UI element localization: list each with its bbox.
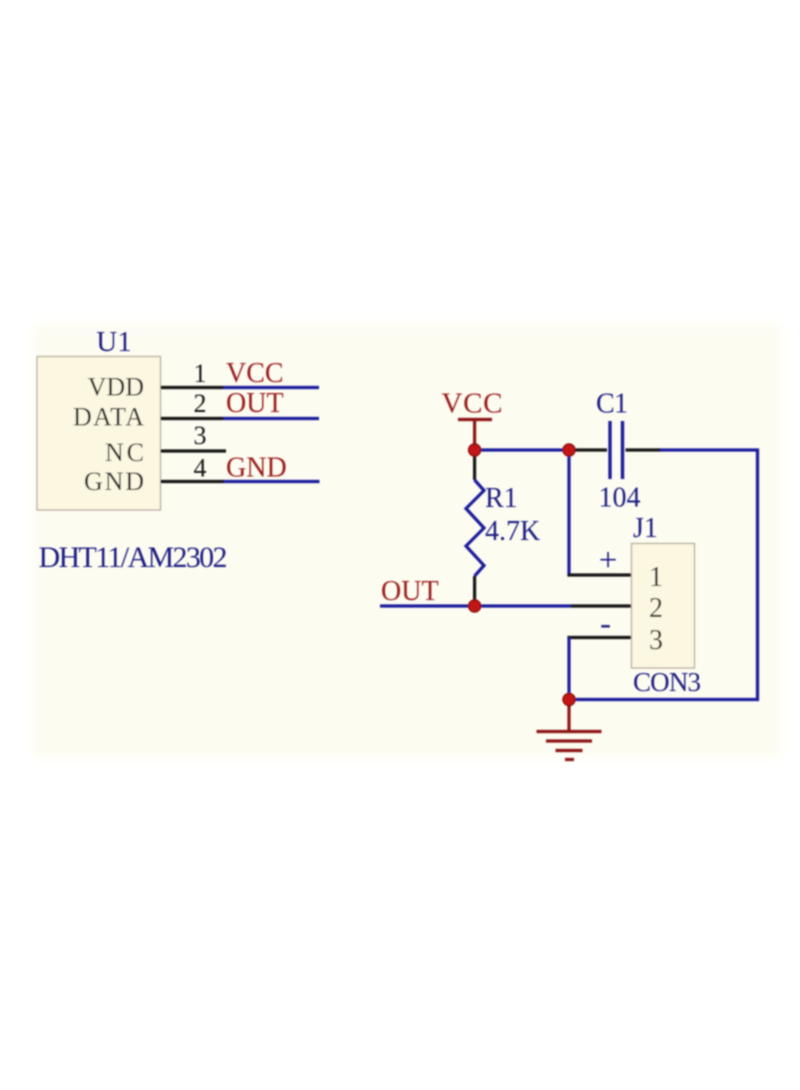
svg-text:VCC: VCC (442, 388, 503, 420)
svg-text:C1: C1 (596, 389, 628, 420)
wire VCC node to C1 node (475, 448, 569, 451)
svg-text:J1: J1 (633, 513, 658, 544)
J1 pin 1 stub (567, 573, 631, 576)
svg-text:U1: U1 (96, 326, 131, 358)
capacitor C1 left lead (574, 448, 607, 451)
ground symbol bar 3 (556, 749, 583, 752)
svg-text:3: 3 (194, 421, 207, 450)
svg-text:GND: GND (226, 453, 287, 484)
capacitor C1 right lead (626, 448, 662, 451)
wire VCC from U1 pin 1 (224, 386, 320, 389)
junction node ground (dot) (563, 694, 575, 706)
svg-text:2: 2 (649, 593, 663, 624)
ground symbol bar 1 (537, 730, 602, 733)
capacitor C1 right plate (621, 421, 624, 479)
svg-text:-: - (600, 606, 611, 642)
svg-text:OUT: OUT (381, 576, 439, 607)
connector J1 body (632, 544, 695, 669)
J1 pin 3 stub (567, 636, 631, 639)
svg-text:GND: GND (84, 467, 144, 496)
power port VCC stem (473, 420, 476, 447)
resistor R1 zigzag body (466, 480, 484, 576)
wire C1 node down to J1 pin 1 (567, 450, 570, 575)
svg-text:104: 104 (599, 483, 641, 514)
capacitor C1 left plate (608, 421, 611, 479)
svg-text:4: 4 (194, 454, 207, 483)
ground symbol bar 4 (565, 758, 574, 761)
svg-text:VDD: VDD (88, 373, 144, 402)
J1 pin 2 stub (571, 604, 632, 607)
svg-text:2: 2 (194, 389, 207, 418)
svg-text:1: 1 (649, 562, 663, 593)
wire GND from U1 pin 4 (224, 480, 320, 483)
junction node VCC (dot) (469, 444, 481, 456)
ground symbol stem (567, 700, 570, 732)
wire J1 pin 3 down to ground node (567, 638, 570, 700)
wire C1 to right riser, down and along bottom to ground node (569, 450, 758, 700)
resistor R1 bottom lead (473, 576, 476, 606)
svg-text:CON3: CON3 (633, 667, 701, 697)
svg-text:+: + (599, 543, 618, 579)
junction node at C1 left (dot) (563, 444, 575, 456)
resistor R1 top lead (473, 450, 476, 480)
power port VCC bar symbol (458, 418, 492, 421)
svg-text:VCC: VCC (226, 358, 284, 389)
pin 2 stub of U1 (161, 417, 224, 420)
svg-text:DATA: DATA (73, 403, 144, 432)
svg-text:DHT11/AM2302: DHT11/AM2302 (39, 541, 228, 574)
svg-text:R1: R1 (485, 483, 518, 514)
svg-text:4.7K: 4.7K (485, 516, 540, 547)
ground symbol bar 2 (546, 739, 592, 742)
junction node OUT/R1 (dot) (469, 600, 481, 612)
pin 1 stub of U1 (161, 386, 224, 389)
wire OUT from U1 pin 2 (224, 417, 320, 420)
pin 3 stub of U1 (NC, unconnected) (161, 449, 227, 452)
paper background wash (33, 324, 781, 758)
wire OUT horizontal run (380, 604, 571, 607)
svg-text:1: 1 (194, 359, 207, 388)
pin 4 stub of U1 (161, 480, 225, 483)
IC U1 body (37, 357, 161, 511)
svg-text:OUT: OUT (226, 388, 284, 419)
svg-text:3: 3 (649, 625, 663, 656)
